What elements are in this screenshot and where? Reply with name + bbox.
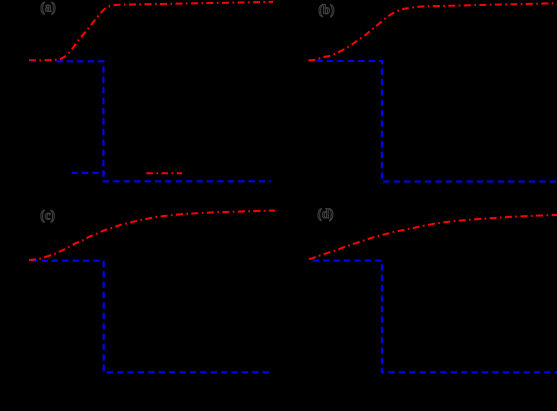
legend red dash-dot sample (a) (146, 172, 182, 174)
blue probe step curve (b) (317, 61, 557, 182)
red pump-probe curve (b) (308, 3, 557, 60)
svg-text:(c): (c) (40, 208, 55, 223)
red pump-probe curve (d) (309, 215, 557, 259)
legend blue dashed sample (a) (72, 172, 105, 174)
blue probe step curve (d) (313, 261, 557, 373)
blue stub under first red dash (a) (30, 61, 36, 63)
svg-text:(a): (a) (40, 0, 55, 15)
svg-text:(d): (d) (317, 206, 333, 221)
blue probe step curve (c) (31, 261, 273, 373)
svg-text:(b): (b) (318, 2, 334, 17)
red pump-probe curve (c) (29, 211, 275, 261)
blue probe step curve (a) (57, 61, 272, 181)
red pump-probe curve (a) (29, 2, 273, 61)
